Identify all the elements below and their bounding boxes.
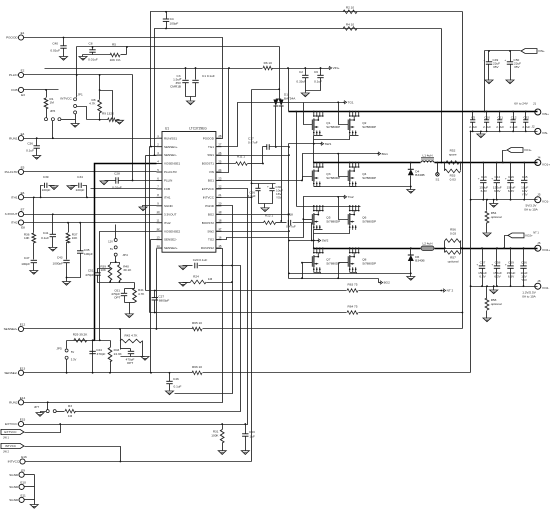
svg-text:100pF: 100pF [21, 262, 30, 266]
wire R3 row [57, 411, 65, 413]
svg-text:ITH1: ITH1 [164, 195, 171, 199]
ground VIN- [477, 134, 485, 138]
svg-text:J4: J4 [537, 155, 541, 159]
svg-text:SENSE1-: SENSE1- [164, 153, 177, 157]
transistor Q1 Si7880DP [313, 111, 315, 113]
wire sense right vertical to VO1 rail [441, 29, 443, 163]
wire FCB E3 line [24, 89, 59, 91]
ground SGND pin9 [139, 207, 147, 211]
junction VIN pin24 tap [228, 67, 230, 69]
junction rail Q1 [313, 111, 315, 113]
junction C17 SW [288, 146, 290, 148]
ground R41 C61 [125, 314, 133, 318]
svg-text:12V: 12V [108, 240, 113, 244]
wire C27 bottom lead [154, 301, 156, 313]
svg-text:470pF: 470pF [97, 352, 106, 356]
svg-text:R9 132K: R9 132K [102, 112, 115, 116]
svg-text:E6: E6 [21, 191, 25, 195]
junction VO2 cap C59 top [510, 247, 512, 249]
svg-text:10K: 10K [72, 236, 78, 240]
svg-text:RUN1: RUN1 [9, 136, 18, 140]
svg-text:C12: C12 [511, 115, 517, 119]
wire JP4 bottom [111, 257, 116, 265]
junction VO1- gnd [493, 199, 495, 201]
wire VO2 rail right [461, 248, 538, 250]
wire FCB pin7 line [91, 188, 157, 190]
wire BG2 pin19 [216, 214, 289, 216]
wire C61 top lead [124, 289, 126, 294]
terminal E16 INTVCC [20, 459, 25, 464]
wire Q3 sources [314, 186, 321, 188]
svg-text:SW1: SW1 [325, 142, 332, 146]
junction SENSE2+ tap [156, 328, 158, 330]
wire VOSENSE2 pin12 [100, 232, 157, 341]
wire PGND bus vertical [470, 132, 472, 373]
junction R40 bottom [119, 281, 121, 283]
svg-text:SW2: SW2 [207, 229, 214, 233]
capacitor C49 22uF [486, 61, 492, 63]
jumper JP1 pads [74, 98, 77, 101]
jack J5 VO1- [535, 197, 541, 203]
svg-text:R11 1: R11 1 [237, 155, 245, 159]
wire S1 stem [437, 163, 439, 173]
svg-text:27: 27 [218, 142, 222, 146]
wire C2 gnd stem [305, 91, 307, 93]
svg-text:C11: C11 [497, 115, 503, 119]
junction D1 intvcc join [278, 88, 280, 90]
terminal E7 3.3VOUT [18, 212, 23, 217]
wire TG2 Q5 gate lead [304, 219, 313, 221]
net tag VO1+ sense [507, 148, 523, 153]
svg-text:E3: E3 [21, 93, 25, 97]
svg-text:12: 12 [156, 227, 160, 231]
wire D1 anode stem [279, 47, 281, 99]
svg-text:6.3V: 6.3V [481, 189, 488, 193]
test point SW1 [321, 142, 324, 146]
svg-text:0.01uF: 0.01uF [50, 49, 60, 53]
wire C3 lead [185, 69, 187, 80]
svg-text:2.2uF: 2.2uF [522, 125, 530, 129]
resistor R52 spare [446, 161, 459, 165]
wire VOSENSE1 thick [95, 164, 157, 341]
resistor R31 100K [220, 430, 224, 444]
svg-text:C56: C56 [521, 261, 527, 265]
capacitor C44 470pF [89, 350, 95, 352]
wire R36 branch [33, 198, 35, 233]
junction ch2 rail Q6 [349, 205, 351, 207]
wire C57 top lead [482, 249, 484, 266]
svg-text:ITH2: ITH2 [11, 221, 18, 225]
net tag VO2+ sense [508, 233, 524, 238]
svg-text:R6 10: R6 10 [264, 61, 273, 65]
svg-text:1M: 1M [208, 277, 213, 281]
wire INTVCC tag link [25, 447, 121, 462]
svg-text:1000pF: 1000pF [53, 262, 64, 266]
wire Q4 sources [350, 186, 357, 188]
wire VO1 flag stem [503, 151, 507, 163]
test point BG1 [378, 152, 381, 156]
capacitor C4 100pF [163, 18, 169, 20]
jack J2 VIN- [535, 128, 541, 134]
junction BG2 Q8 tap [337, 277, 339, 279]
wire Q2 sources bar [350, 135, 359, 137]
junction Q3 drain rail [313, 162, 315, 164]
wire R36 to C47 [33, 243, 35, 260]
wire R56 loop left [444, 241, 446, 253]
wire C10 bottom lead [486, 123, 488, 132]
wire R41 C61 bottom [125, 302, 135, 304]
wire C45 top [120, 341, 122, 350]
capacitor C16 150uF [507, 179, 513, 181]
wire C14 top lead [496, 163, 498, 181]
svg-text:optional: optional [491, 302, 502, 306]
junction VO2 cap C57 bottom [481, 285, 483, 287]
jack S1 probe [436, 173, 440, 177]
wire ch2 drain rail [297, 206, 361, 208]
terminal E9 SGND [19, 472, 24, 477]
svg-text:24.3K: 24.3K [114, 352, 123, 356]
wire JP1 bottom to gnd [75, 114, 77, 124]
svg-text:E8: E8 [21, 226, 25, 230]
ground C36 [33, 156, 41, 160]
junction VO1 cap C16 bottom [510, 199, 512, 201]
ground C41 [49, 247, 57, 251]
wire PLLFLTR E5 to IC pin5 [24, 171, 157, 173]
jack J8 VO2- [535, 283, 541, 289]
svg-text:3.3VOUT: 3.3VOUT [5, 212, 18, 216]
wire BG2 Q8 gate drop [338, 263, 340, 279]
junction sense at VO2 rail [462, 247, 464, 249]
svg-text:R2 10: R2 10 [346, 6, 355, 10]
wire D6 cathode stem [410, 249, 412, 255]
svg-text:INTVCC: INTVCC [60, 97, 72, 101]
svg-text:SENSE2+: SENSE2+ [4, 327, 18, 331]
svg-text:C1 0.1uF: C1 0.1uF [202, 74, 215, 78]
jumper JP7 pads [46, 410, 49, 413]
transistor Q4 Si7880DP [349, 162, 351, 164]
wire SGND E11 stub [25, 499, 35, 501]
terminal E14 RUN2 [18, 400, 23, 405]
svg-text:1uF: 1uF [250, 435, 255, 439]
junction R56 left [444, 247, 446, 249]
svg-text:EXTVCC: EXTVCC [5, 422, 18, 426]
svg-text:R24: R24 [193, 275, 199, 279]
wire INTVCC pullup line [77, 46, 280, 48]
junction VIN cap C12 top [512, 111, 514, 113]
svg-text:0.47uF: 0.47uF [248, 141, 258, 145]
svg-text:OPT: OPT [114, 296, 120, 300]
wire PLLIN vertical [133, 75, 157, 181]
wire C57 bottom lead [482, 269, 484, 287]
wire INTVCC cap rail [252, 183, 276, 185]
capacitor C27 6800pF [152, 297, 158, 299]
junction VO2 cap C59 bottom [510, 285, 512, 287]
terminal E11 SGND [19, 497, 24, 502]
svg-text:C15: C15 [522, 175, 528, 179]
junction JP7 tap [47, 401, 49, 403]
junction C53 tap [244, 423, 246, 425]
svg-text:C8: C8 [89, 42, 93, 46]
junction C8 top [92, 46, 94, 48]
wire SENSE1- stub [146, 155, 157, 157]
wire C62 bottom lead [525, 123, 527, 132]
junction JP4 dividers [115, 261, 117, 263]
capacitor C15 10uF [521, 179, 527, 181]
svg-text:J8: J8 [537, 279, 541, 283]
capacitor C43 1000pF [63, 259, 69, 261]
svg-text:TG1: TG1 [348, 101, 354, 105]
wire C61 bottom lead [124, 296, 126, 303]
wire FCB jumper segment [100, 91, 113, 120]
junction R54 tap [486, 199, 488, 201]
terminal E4 RUN1 [18, 136, 23, 141]
capacitor C34 220pF [78, 183, 80, 188]
wire C4 bottom lead [166, 22, 168, 29]
ground C40 [60, 57, 68, 61]
resistor R64 75 [347, 311, 358, 315]
ground JP1 [71, 124, 79, 128]
wire C11 bottom lead [499, 123, 501, 132]
wire BG1 riser [303, 154, 379, 181]
junction S1 tap [437, 162, 439, 164]
wire TG2 from pin16 [216, 197, 345, 240]
wire C40 lead [63, 38, 65, 46]
wire D4 anode stem [410, 183, 412, 187]
wire SENSE1+ stub [150, 146, 157, 148]
transistor Q5 Si7880DP [313, 205, 315, 207]
wire C59 bottom lead [510, 269, 512, 287]
svg-text:VO2+: VO2+ [542, 248, 550, 252]
wire BG1 pin23 [216, 180, 303, 182]
capacitor C5 2.2uF [470, 119, 475, 121]
ground PGND1 [407, 190, 415, 194]
ground C3 C1 [187, 101, 195, 105]
capacitor C30 10uF [269, 187, 274, 189]
terminal E13 SENSE2- [18, 370, 23, 375]
wire C44 stem [92, 341, 94, 373]
test point BG2 [380, 281, 383, 285]
wire ITH1 E6 to IC pin8 [24, 197, 157, 199]
wire R9 to gnd [117, 119, 120, 121]
svg-text:R42 4.7K: R42 4.7K [125, 334, 139, 338]
svg-text:B340B: B340B [415, 173, 424, 177]
capacitor C53 1uF [242, 433, 248, 435]
svg-text:optional: optional [491, 215, 502, 219]
junction BG1 Q4 tap [337, 153, 339, 155]
wire cluster gnd stem [129, 303, 131, 314]
ground R54 [483, 233, 491, 237]
svg-text:28: 28 [218, 134, 222, 138]
resistor R41 4.7K [133, 288, 137, 302]
wire TG1 Q1 gate drop [304, 103, 313, 125]
capacitor C36 0.1uF [34, 145, 40, 147]
svg-text:C39: C39 [43, 175, 49, 179]
wire C45 box top [121, 348, 131, 350]
wire BG2 line [289, 278, 379, 280]
junction R1 FCB [45, 89, 47, 91]
wire R41 stem [134, 283, 136, 289]
svg-text:PLLFLTR: PLLFLTR [164, 170, 177, 174]
wire PGOOD E1 to IC pin28 [24, 38, 223, 139]
svg-text:FCB: FCB [164, 187, 170, 191]
wire SGND gnd stem [34, 500, 36, 505]
resistor R56 0.03 [445, 239, 461, 243]
junction D1 boost1 [275, 146, 277, 148]
resistor R9 132K [108, 118, 117, 122]
wire C6 lead [320, 69, 322, 76]
wire SW2 to rail [313, 241, 315, 249]
svg-text:25: 25 [218, 159, 222, 163]
wire R24 right [207, 282, 233, 284]
svg-text:R64 75: R64 75 [348, 305, 358, 309]
svg-text:BAT54A: BAT54A [284, 97, 296, 101]
wire C49 rail drop [484, 51, 486, 112]
wire C34 to gnd [71, 185, 78, 187]
svg-text:E9: E9 [21, 468, 25, 472]
resistor R57 optional [445, 251, 461, 255]
svg-text:BG1: BG1 [382, 152, 388, 156]
svg-text:BG2: BG2 [384, 281, 390, 285]
svg-text:C40: C40 [52, 42, 58, 46]
wire C49 gnd [488, 65, 490, 81]
wire C2 C6 join [306, 78, 321, 91]
junction pullup [126, 46, 128, 48]
wire BOOST1 pin25 [216, 163, 236, 165]
svg-text:VOSENSE2: VOSENSE2 [164, 229, 181, 233]
svg-text:SENSE1+: SENSE1+ [164, 145, 178, 149]
junction ITH1 C34 [86, 196, 88, 198]
junction VIN rail riser [287, 67, 289, 69]
svg-text:optional: optional [448, 260, 459, 264]
ground R58 [483, 318, 491, 322]
wire R8 bottom [99, 113, 101, 120]
junction VO2 cap C58 bottom [496, 285, 498, 287]
junction VIN cap C10 bottom [486, 131, 488, 133]
junction R4 sense at VO1 rail [440, 162, 442, 164]
net tag INTVCC [1, 443, 24, 448]
junction D6 rail [410, 247, 412, 249]
svg-text:Si7880DP: Si7880DP [326, 262, 340, 266]
svg-text:VO1+: VO1+ [524, 148, 532, 152]
wire VIN line [45, 68, 263, 70]
svg-text:6.3V: 6.3V [494, 189, 501, 193]
wire VO2- gnd stem [493, 287, 495, 291]
junction SW2 line join [288, 240, 290, 242]
wire SGND E9 stub [25, 474, 35, 476]
capacitor C50 22uF [507, 61, 513, 63]
wire C8 top stub [92, 47, 94, 50]
junction VO1 cap C16 top [510, 162, 512, 164]
junction VO2 cap C57 top [481, 247, 483, 249]
junction VO2 cap C56 bottom [523, 285, 525, 287]
ground R9 [116, 120, 124, 124]
resistor R43 24.3K [108, 348, 112, 362]
junction R52 right [460, 162, 462, 164]
svg-text:TG2: TG2 [348, 195, 354, 199]
wire JP7 stem [47, 403, 49, 410]
junction C27 top [154, 290, 156, 292]
wire VO2- rail [471, 286, 538, 288]
wire C26 lead [258, 184, 260, 189]
wire TG2 Q6 gate drop [339, 197, 349, 220]
svg-text:SENSE2-: SENSE2- [4, 371, 17, 375]
svg-text:R12 1: R12 1 [265, 214, 274, 218]
wire SENSE2- pin13 vertical [150, 240, 152, 373]
junction BG2 Q7 gate [301, 262, 303, 264]
svg-text:INTVCC: INTVCC [203, 195, 215, 199]
svg-text:+: + [491, 177, 493, 181]
svg-text:FCB: FCB [11, 88, 17, 92]
resistor R2 10 [343, 10, 357, 14]
svg-text:PGND: PGND [205, 204, 215, 208]
svg-text:RUN/SS1: RUN/SS1 [164, 136, 177, 140]
svg-text:SGND: SGND [9, 485, 19, 489]
wire SGND E10 stub [25, 486, 35, 488]
wire SW2 pin17 [216, 231, 289, 233]
diode D1 BAT54A dual [276, 98, 281, 100]
resistor R40 30.1K [118, 265, 122, 281]
wire boost1 corner [262, 147, 264, 164]
svg-text:2.2uF: 2.2uF [483, 125, 491, 129]
wire INTVCC pin21 stub [216, 197, 252, 199]
junction TG1 Q2 gate [337, 101, 339, 103]
svg-text:Si7880DP: Si7880DP [362, 125, 376, 129]
svg-text:0.03: 0.03 [450, 178, 456, 182]
wire C5 top lead [472, 112, 474, 120]
jack J4 VO1+ [535, 160, 541, 166]
junction VIN cap C11 top [499, 111, 501, 113]
wire R43 bottom [110, 362, 112, 373]
capacitor C8 0.01uF [89, 49, 95, 51]
svg-text:CMR1B: CMR1B [170, 85, 181, 89]
wire R5 riser [126, 47, 128, 55]
terminal E5 PLLFLTR [18, 169, 23, 174]
resistor R4 10 [343, 27, 357, 31]
svg-text:VIN+: VIN+ [333, 66, 340, 70]
wire ch2 drain feed riser [296, 112, 298, 207]
wire BG2 Q7 gate lead [303, 262, 313, 264]
junction C2 tap [304, 67, 306, 69]
wire D4 cathode stem [410, 163, 412, 170]
svg-text:SGND: SGND [9, 473, 19, 477]
wire VIN rail riser [288, 69, 290, 112]
wire C51 top [98, 269, 111, 273]
svg-text:VO1+: VO1+ [542, 162, 550, 166]
svg-text:26: 26 [218, 151, 222, 155]
svg-text:E5: E5 [21, 166, 25, 170]
junction C49 [488, 50, 490, 52]
svg-text:VO1-: VO1- [542, 200, 549, 204]
junction R43 SENSE2- [109, 372, 111, 374]
wire D6 body [410, 261, 412, 274]
wire SGND pin stub [143, 206, 157, 207]
svg-text:0A to 10A: 0A to 10A [524, 208, 538, 212]
svg-text:C10: C10 [484, 115, 490, 119]
wire SGND vertical [34, 475, 36, 500]
resistor R66 10 [192, 371, 202, 375]
net tag EXTVCC [1, 429, 24, 434]
junction VO1 cap C15 bottom [523, 199, 525, 201]
svg-text:100pF: 100pF [84, 252, 93, 256]
ground C34 [67, 186, 75, 190]
svg-text:100pF: 100pF [170, 22, 179, 26]
svg-text:R66 10: R66 10 [192, 365, 202, 369]
ground SGND cluster [30, 505, 38, 509]
svg-text:J2: J2 [531, 125, 535, 129]
svg-text:0.01uF: 0.01uF [88, 58, 98, 62]
wire R37 branch [68, 223, 70, 233]
wire sense line VO1 lower right [359, 290, 442, 292]
